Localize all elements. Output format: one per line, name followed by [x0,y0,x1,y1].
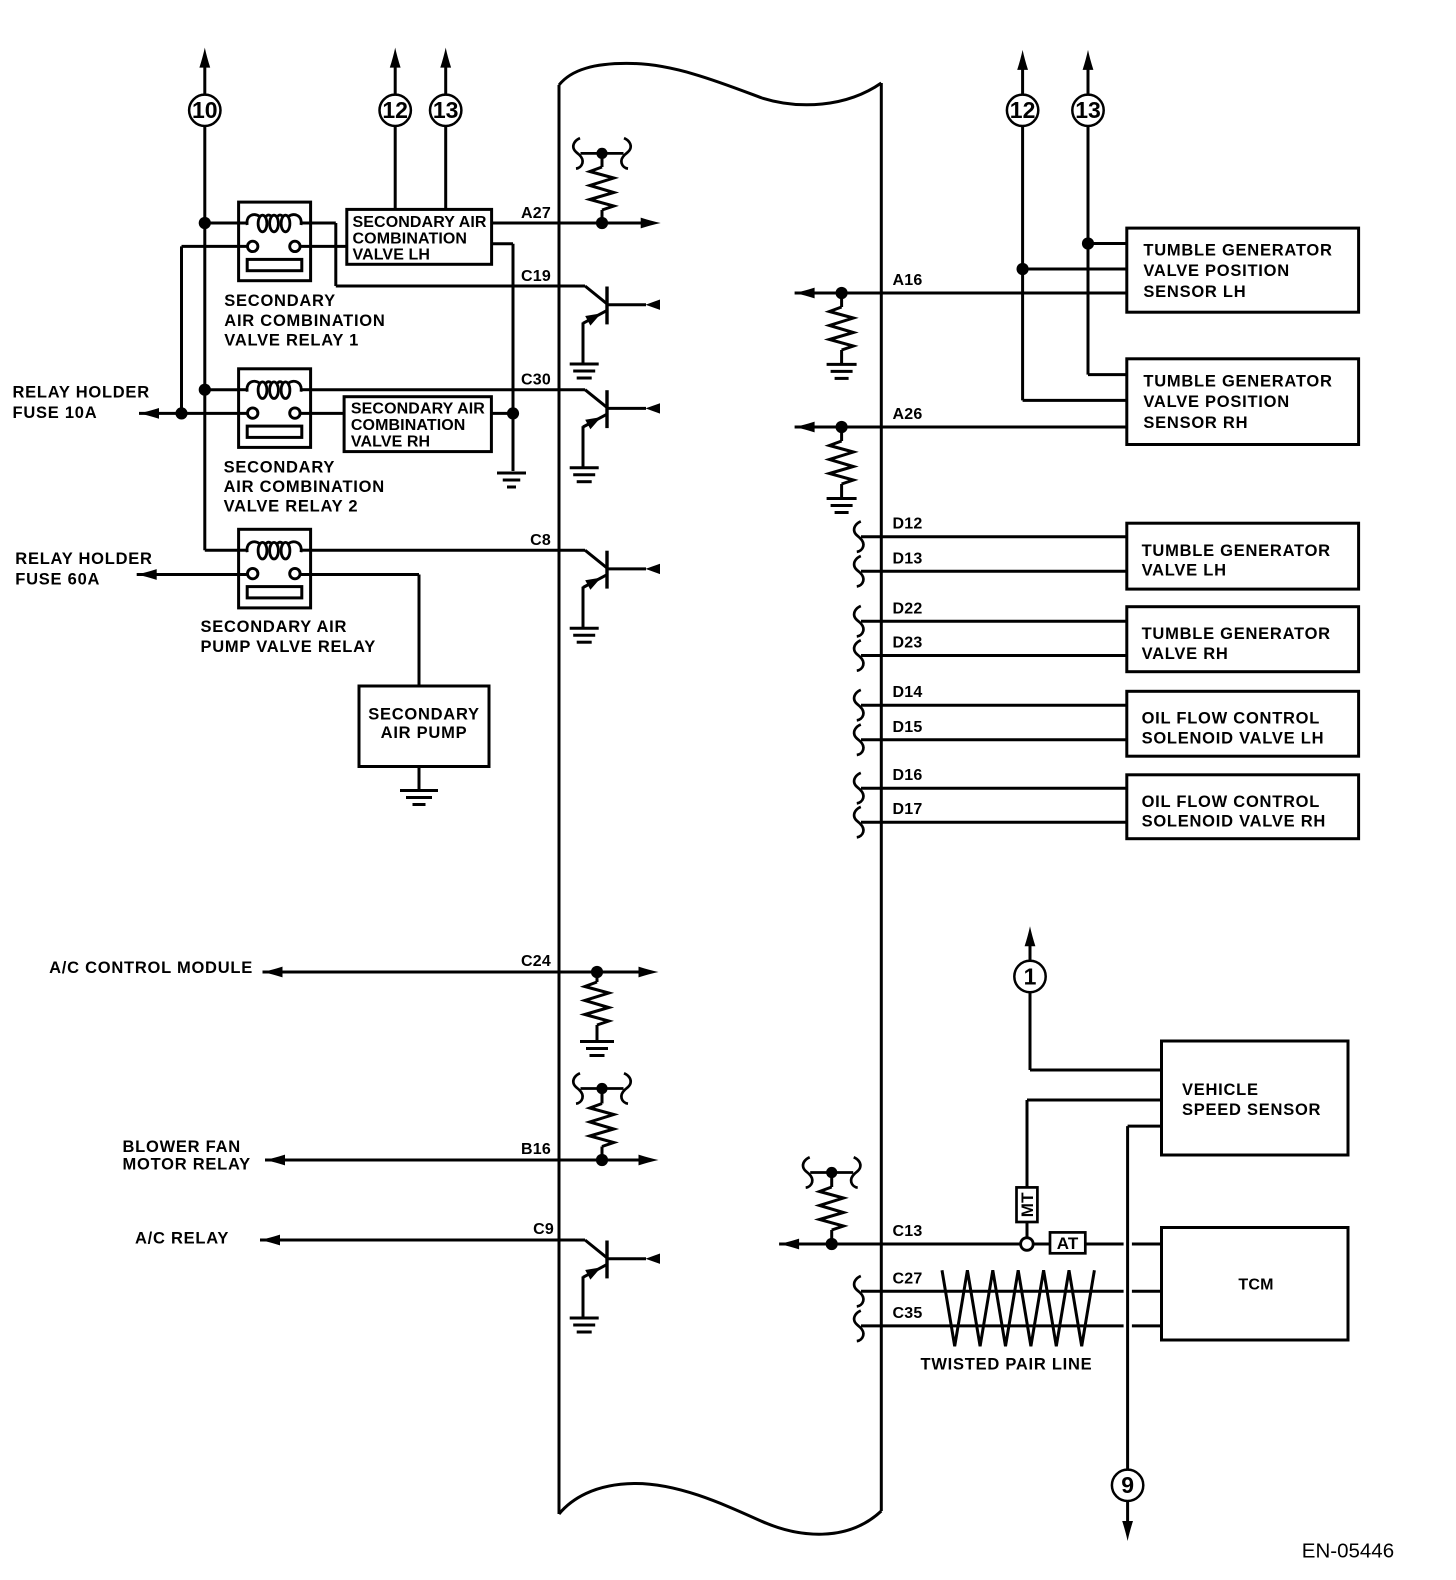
connector circle 12 (right) [1007,95,1038,126]
svg-text:C13: C13 [893,1223,923,1240]
svg-text:C35: C35 [893,1305,923,1322]
svg-text:AT: AT [1057,1234,1079,1253]
svg-text:VALVE POSITION: VALVE POSITION [1143,393,1290,411]
svg-text:AIR COMBINATION: AIR COMBINATION [224,478,385,496]
box: TUMBLE GENERATOR VALVE POSITION SENSOR LH [1127,228,1359,312]
transistor: C19 driver [584,285,587,288]
open circle: MT/AT split [1021,1238,1034,1251]
ground (A16) [827,363,857,366]
relay: SECONDARY AIR COMBINATION VALVE RELAY 1 [239,202,311,281]
svg-text:TUMBLE GENERATOR: TUMBLE GENERATOR [1142,625,1331,643]
svg-text:VALVE RH: VALVE RH [351,434,430,451]
wire: C13 to TCM (with crossing break) [1033,1243,1161,1246]
junction: fuse10 line / relay1 contact drop [175,407,187,419]
junction: 13-line / sensor LH [1082,237,1094,249]
svg-text:FUSE 10A: FUSE 10A [13,404,98,422]
wire D23 with continuation mark [854,640,1127,671]
connector circle 13 (left) [430,95,461,126]
junction: valve RH pin / ground drop [507,407,519,419]
box: MT [1017,1187,1038,1222]
svg-text:TUMBLE GENERATOR: TUMBLE GENERATOR [1143,241,1332,259]
wire D14 with continuation mark [854,690,1127,721]
wire: VSS to connector 1 [1025,926,1162,1070]
junction: C24 / resistor [591,966,603,978]
wire: valve LH to connector 12 [394,126,397,209]
wire: relay1 coil feed [205,222,239,225]
box: VEHICLE SPEED SENSOR [1162,1041,1349,1155]
box: AT [1050,1232,1085,1253]
svg-text:VALVE RELAY 1: VALVE RELAY 1 [224,331,359,349]
wire A27: valve LH to ECM [492,222,602,225]
svg-text:TWISTED PAIR LINE: TWISTED PAIR LINE [921,1356,1093,1374]
wire: relay1 contact left segment [182,245,248,248]
arrow to relay holder fuse 10A [139,408,159,419]
arrow up (12 right) [1017,50,1028,95]
svg-text:B16: B16 [521,1141,551,1158]
wire D15 with continuation mark [854,725,1127,756]
transistor: C9 driver [584,1239,587,1242]
svg-text:VALVE RH: VALVE RH [1142,645,1229,663]
svg-text:A/C RELAY: A/C RELAY [135,1229,229,1247]
box: SECONDARY AIR COMBINATION VALVE LH [347,209,492,264]
ground (air pump) [400,789,438,792]
svg-text:SOLENOID VALVE RH: SOLENOID VALVE RH [1142,813,1327,831]
transistor: C8 driver [584,549,587,552]
svg-text:1: 1 [1024,963,1037,989]
wire: connector 12 (right) down to sensors [1023,126,1127,400]
wire: fuse 10A line [139,412,248,415]
arrow up to connector 10 [199,48,210,68]
wire: relay2 coil feed [205,388,239,391]
svg-text:COMBINATION: COMBINATION [351,417,466,434]
svg-text:RELAY HOLDER: RELAY HOLDER [13,383,150,401]
wire: VSS to MT switch [1027,1100,1162,1238]
svg-text:12: 12 [1010,97,1036,123]
svg-text:SECONDARY: SECONDARY [224,458,336,476]
wire D12 with continuation mark [854,521,1127,552]
box: TUMBLE GENERATOR VALVE LH [1127,523,1359,589]
svg-text:OIL FLOW CONTROL: OIL FLOW CONTROL [1142,710,1321,728]
svg-text:VALVE POSITION: VALVE POSITION [1143,262,1290,280]
relay: SECONDARY AIR COMBINATION VALVE RELAY 2 [239,369,311,448]
svg-text:C8: C8 [530,532,551,549]
svg-text:10: 10 [192,97,218,123]
svg-text:D13: D13 [893,550,923,567]
junction: A26 / resistor [836,421,848,433]
wire: relay2 contact to valve RH [300,412,344,415]
svg-text:D23: D23 [893,635,923,652]
wire B16: blower fan motor relay line [265,1155,659,1166]
svg-text:BLOWER FAN: BLOWER FAN [123,1138,241,1156]
wire C13 with arrow (left of crossing) [779,1239,1021,1250]
svg-text:SECONDARY: SECONDARY [368,705,480,723]
relay: SECONDARY AIR PUMP VALVE RELAY [239,529,311,608]
svg-text:VALVE LH: VALVE LH [1142,562,1227,580]
svg-text:MOTOR RELAY: MOTOR RELAY [123,1155,251,1173]
svg-text:VALVE LH: VALVE LH [353,247,431,264]
arrow up (13 right) [1083,50,1094,95]
junction: line10 / relay1 coil [199,217,211,229]
ground (valve drop) [497,472,526,475]
arrow down from circle 9 [1122,1501,1133,1541]
connector circle 10 [189,95,220,126]
wire A16 with arrow [795,288,1127,299]
wire C8: relay3 coil to ECM transistor [311,549,585,552]
ground (A26) [827,497,857,500]
junction: B16 / resistor [596,1154,608,1166]
svg-text:MT: MT [1018,1192,1037,1217]
resistor to ground (A26) [829,427,853,497]
svg-text:TUMBLE GENERATOR: TUMBLE GENERATOR [1143,372,1332,390]
svg-text:C9: C9 [533,1221,554,1238]
svg-text:A16: A16 [893,272,923,289]
svg-text:SECONDARY AIR: SECONDARY AIR [351,401,485,418]
resistor to ground (A16) [829,293,853,363]
wire C24: A/C control module line [263,967,659,978]
svg-text:A27: A27 [521,205,551,222]
connector circle 1 [1014,961,1045,992]
wire: drop from relay1 contact to fuse 10A line [180,246,183,413]
ECM connector body (torn-edge box) [559,63,881,1534]
box: TUMBLE GENERATOR VALVE RH [1127,607,1359,672]
box: TCM [1162,1228,1349,1341]
svg-text:C27: C27 [893,1270,923,1287]
wire: valve RH right pin to drop [491,412,513,415]
arrow up (12 left) [390,48,401,95]
svg-text:D12: D12 [893,516,923,533]
svg-text:D14: D14 [893,684,923,701]
ground (C24) [580,1040,614,1043]
wire D16 with continuation mark [854,773,1127,804]
svg-text:COMBINATION: COMBINATION [353,230,468,247]
twisted pair zigzag [942,1270,1094,1346]
svg-text:D16: D16 [893,767,923,784]
junction: A16 / resistor [836,287,848,299]
svg-text:D17: D17 [893,801,923,818]
resistor to ground (C24) [585,972,609,1040]
svg-text:13: 13 [433,97,459,123]
wire: valve LH to connector 13 [444,126,447,209]
svg-text:SPEED SENSOR: SPEED SENSOR [1182,1101,1321,1119]
wire: connector 13 (right) down to sensors [1088,126,1127,374]
box: SECONDARY AIR PUMP [359,686,489,767]
svg-text:AIR COMBINATION: AIR COMBINATION [224,312,385,330]
wire: valve LH lower pin to ground drop [492,244,513,414]
wire+arrow: A27 into ECM [602,218,661,229]
svg-text:12: 12 [382,97,408,123]
svg-text:FUSE 60A: FUSE 60A [15,571,100,589]
svg-text:TUMBLE GENERATOR: TUMBLE GENERATOR [1142,542,1331,560]
wire A26 with arrow [795,422,1127,433]
wire: relay1 contact right segment to valve LH [300,245,347,248]
junction: line10 / relay2 coil [199,384,211,396]
svg-text:TCM: TCM [1238,1277,1273,1294]
transistor: C30 driver [584,388,587,391]
wire D22 with continuation mark [854,606,1127,637]
wire D17 with continuation mark [854,807,1127,838]
wire: drop to ground below valve RH [512,413,515,471]
svg-text:RELAY HOLDER: RELAY HOLDER [15,550,152,568]
wire: VSS lower pin to TCM column [1128,1126,1162,1470]
svg-text:PUMP VALVE RELAY: PUMP VALVE RELAY [201,638,377,656]
node: C13 pull-up with continuation curls [803,1157,860,1244]
connector circle 13 (right) [1072,95,1103,126]
svg-text:C30: C30 [521,372,551,389]
svg-text:A26: A26 [893,406,923,423]
box: TUMBLE GENERATOR VALVE POSITION SENSOR RH [1127,359,1359,445]
wire C27 with continuation mark and crossing break [854,1276,1161,1307]
arrow up (13 left) [440,48,451,95]
wire C30: relay2 coil to ECM transistor [311,388,585,391]
svg-text:A/C CONTROL MODULE: A/C CONTROL MODULE [49,959,253,977]
svg-text:C24: C24 [521,953,551,970]
svg-text:SOLENOID VALVE LH: SOLENOID VALVE LH [1142,729,1325,747]
wire: relay3 contact to air pump [300,575,419,687]
box: OIL FLOW CONTROL SOLENOID VALVE LH [1127,691,1359,756]
svg-text:VEHICLE: VEHICLE [1182,1081,1259,1099]
box: SECONDARY AIR COMBINATION VALVE RH [344,397,491,452]
arrow to relay holder fuse 60A [137,569,157,580]
svg-text:SENSOR LH: SENSOR LH [1143,283,1246,301]
svg-text:D22: D22 [893,600,923,617]
svg-text:VALVE RELAY 2: VALVE RELAY 2 [224,498,359,516]
node: A27 pull-up with continuation curls [573,138,630,223]
svg-text:AIR PUMP: AIR PUMP [381,724,468,742]
node: B16 pull-up with continuation curls [573,1073,630,1160]
wire: fuse 60A line [137,573,248,576]
svg-text:SECONDARY AIR: SECONDARY AIR [353,214,487,231]
wire D13 with continuation mark [854,556,1127,587]
svg-text:SENSOR RH: SENSOR RH [1143,414,1248,432]
svg-text:EN-05446: EN-05446 [1302,1540,1394,1563]
wire: supply line to connector 10 [205,66,239,550]
box: OIL FLOW CONTROL SOLENOID VALVE RH [1127,775,1359,839]
svg-text:SECONDARY: SECONDARY [224,292,336,310]
svg-text:9: 9 [1121,1472,1134,1498]
junction: C13 / resistor [826,1238,838,1250]
wire: relay1 coil to C19 (via elbow) [311,223,585,286]
svg-text:C19: C19 [521,268,551,285]
wire C9: A/C relay line [260,1235,585,1246]
svg-text:SECONDARY AIR: SECONDARY AIR [201,618,348,636]
svg-text:OIL FLOW CONTROL: OIL FLOW CONTROL [1142,793,1321,811]
junction: A27 line / pull-up [596,217,608,229]
wire: pump to ground [418,767,421,790]
connector circle 9 [1112,1470,1143,1501]
svg-text:13: 13 [1075,97,1101,123]
wire C35 with continuation mark and crossing break [854,1311,1161,1342]
junction: 12-line / sensor LH [1017,263,1029,275]
svg-text:D15: D15 [893,719,923,736]
connector circle 12 (left) [380,95,411,126]
